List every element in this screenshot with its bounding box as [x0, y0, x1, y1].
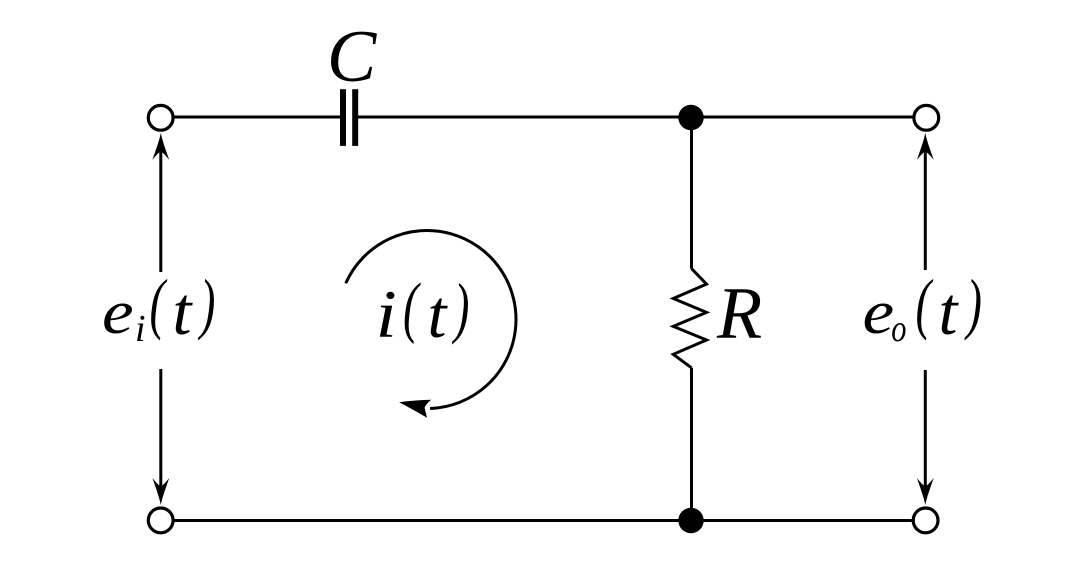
svg-text:(: ( — [403, 269, 421, 345]
input voltage arrow lower (points down to bottom terminal) — [152, 369, 169, 505]
svg-text:(: ( — [150, 265, 168, 341]
resistor R1 zigzag — [673, 269, 706, 368]
wire top rail left segment (input terminal to capacitor) — [161, 116, 341, 119]
svg-text:o: o — [891, 308, 906, 350]
svg-text:i: i — [135, 308, 146, 350]
output voltage arrow lower (points down to bottom terminal) — [917, 370, 934, 505]
node junction bottom (filled dot) — [678, 508, 703, 533]
svg-text:C: C — [327, 16, 378, 98]
svg-text:t: t — [428, 276, 449, 352]
terminal input bottom (open circle) — [148, 508, 173, 533]
svg-text:): ) — [452, 269, 470, 345]
wire resistor branch upper segment — [690, 117, 693, 269]
output voltage arrow upper (points up to top terminal) — [917, 133, 934, 270]
input voltage label e_i(t) — [102, 265, 215, 350]
svg-text:e: e — [102, 278, 134, 347]
output voltage label e_o(t) — [863, 265, 982, 350]
node junction top (filled dot) — [678, 105, 703, 130]
terminal input top (open circle) — [148, 105, 173, 130]
svg-text:(: ( — [916, 265, 934, 341]
svg-text:i: i — [376, 277, 397, 352]
svg-text:t: t — [173, 273, 194, 349]
capacitor C1 plates — [340, 89, 358, 146]
svg-text:R: R — [716, 273, 762, 355]
wire resistor branch lower segment — [690, 368, 693, 521]
svg-text:): ) — [198, 265, 216, 341]
terminal output bottom (open circle) — [913, 508, 938, 533]
svg-text:e: e — [863, 278, 895, 347]
wire bottom rail — [161, 519, 927, 522]
terminal output top (open circle) — [914, 105, 939, 130]
input voltage arrow upper (points up to top terminal) — [152, 133, 169, 272]
mesh current loop arrow (clockwise arc) — [346, 231, 516, 418]
wire top rail right segment (capacitor to output terminal) — [358, 116, 927, 119]
svg-text:t: t — [939, 273, 960, 349]
mesh current label i(t) — [376, 269, 470, 352]
svg-text:): ) — [964, 265, 982, 341]
